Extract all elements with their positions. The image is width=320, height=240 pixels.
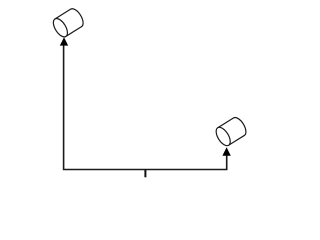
arrowhead into right cylinder: [222, 147, 230, 155]
cylinder (right, tilted drum): [213, 115, 248, 148]
tick mark on bottom wire: [144, 170, 146, 178]
cylinder (left, tilted drum): [51, 6, 86, 39]
wire: L-shaped connector from left arrow down and across to right arrow: [64, 45, 227, 170]
arrowhead into left cylinder: [60, 37, 68, 45]
